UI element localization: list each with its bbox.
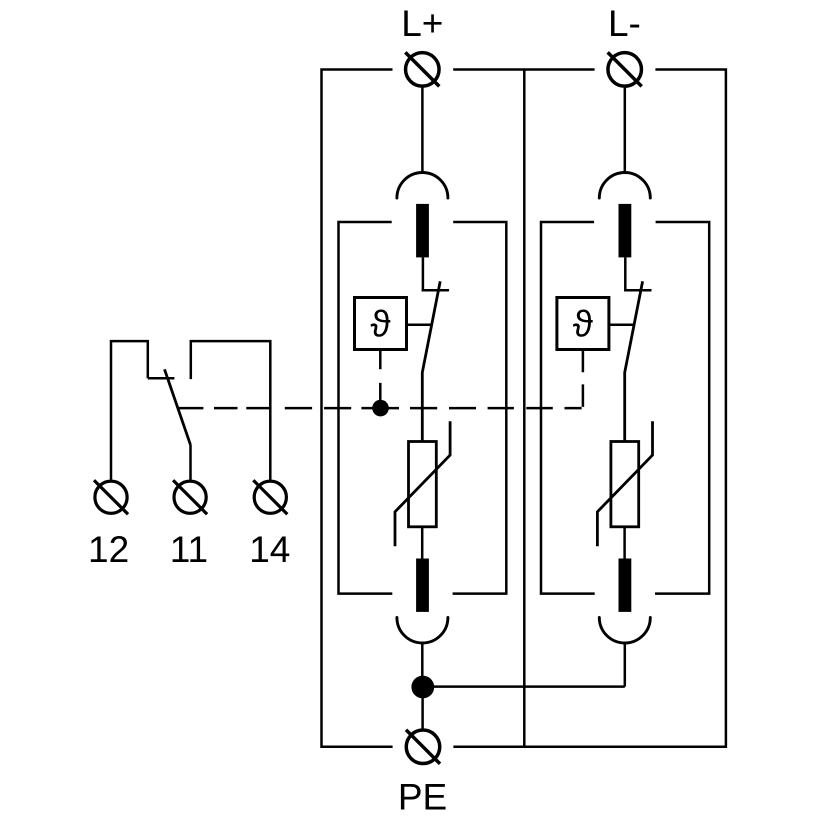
terminal 11 — [173, 480, 207, 514]
wire arc to PE node — [421, 643, 424, 690]
wire L+ terminal to plug — [421, 87, 424, 172]
svg-text:ϑ: ϑ — [370, 304, 390, 345]
svg-text:12: 12 — [88, 529, 129, 570]
thermal monitor box L- — [557, 298, 609, 350]
plug-in disconnect arc top L- — [599, 173, 650, 199]
disconnector contact tick L+ — [422, 289, 449, 292]
contact 12 fixed tick — [148, 377, 175, 380]
plug-in disconnect arc bottom L+ — [397, 618, 448, 644]
wire bar to disconnector L- — [624, 257, 627, 291]
svg-text:L+: L+ — [401, 3, 443, 44]
wire bar to disconnector L+ — [422, 257, 425, 291]
svg-text:14: 14 — [249, 529, 290, 570]
remote contact 11 wire — [189, 445, 192, 481]
changeover blade 11 — [165, 369, 191, 445]
wire theta box to blade L+ — [407, 323, 432, 326]
varistor diagonal stroke L- — [597, 421, 652, 546]
right module inner box — [541, 222, 709, 594]
terminal L- — [608, 52, 642, 86]
varistor diagonal stroke L+ — [395, 421, 450, 546]
terminal L+ — [405, 52, 439, 86]
terminal 12 — [94, 480, 128, 514]
dashed link theta to signal line L- — [565, 350, 583, 409]
junction dot signal node — [372, 400, 389, 417]
wire varistor to bar L+ — [421, 527, 424, 559]
electrode bar bottom L+ — [416, 559, 429, 612]
disconnector contact tick L- — [624, 289, 651, 292]
disconnector blade L- — [625, 281, 643, 441]
remote contact 14 branch wire — [191, 341, 270, 481]
wire theta box to blade L- — [609, 323, 634, 326]
electrode bar bottom L- — [619, 559, 632, 612]
varistor body L+ — [409, 442, 437, 527]
thermal monitor box L+ — [355, 298, 407, 350]
electrode bar top L+ — [416, 204, 429, 258]
wire arc bottom to PE bus L- — [624, 643, 627, 687]
svg-text:PE: PE — [398, 777, 447, 818]
electrode bar top L- — [619, 204, 632, 258]
wire PE node to PE terminal — [421, 687, 424, 730]
terminal PE — [406, 730, 440, 764]
disconnector blade L+ — [422, 281, 440, 441]
PE junction dot — [411, 676, 434, 699]
svg-text:ϑ: ϑ — [573, 304, 593, 345]
dashed link theta to node L+ — [379, 350, 382, 402]
remote contact 12 branch wire — [111, 341, 148, 481]
wire L- terminal to plug — [624, 87, 627, 172]
wire PE node to right module — [423, 685, 625, 688]
divider wire between modules — [523, 70, 526, 747]
svg-text:11: 11 — [170, 529, 208, 570]
outer enclosure box — [322, 70, 726, 747]
terminal 14 — [253, 480, 287, 514]
varistor body L- — [611, 442, 639, 527]
plug-in disconnect arc top L+ — [397, 173, 448, 199]
dashed signal line — [178, 407, 553, 410]
svg-text:L-: L- — [608, 3, 641, 44]
left module inner box — [339, 222, 507, 594]
wire varistor to bar L- — [623, 527, 626, 559]
plug-in disconnect arc bottom L- — [599, 618, 650, 644]
